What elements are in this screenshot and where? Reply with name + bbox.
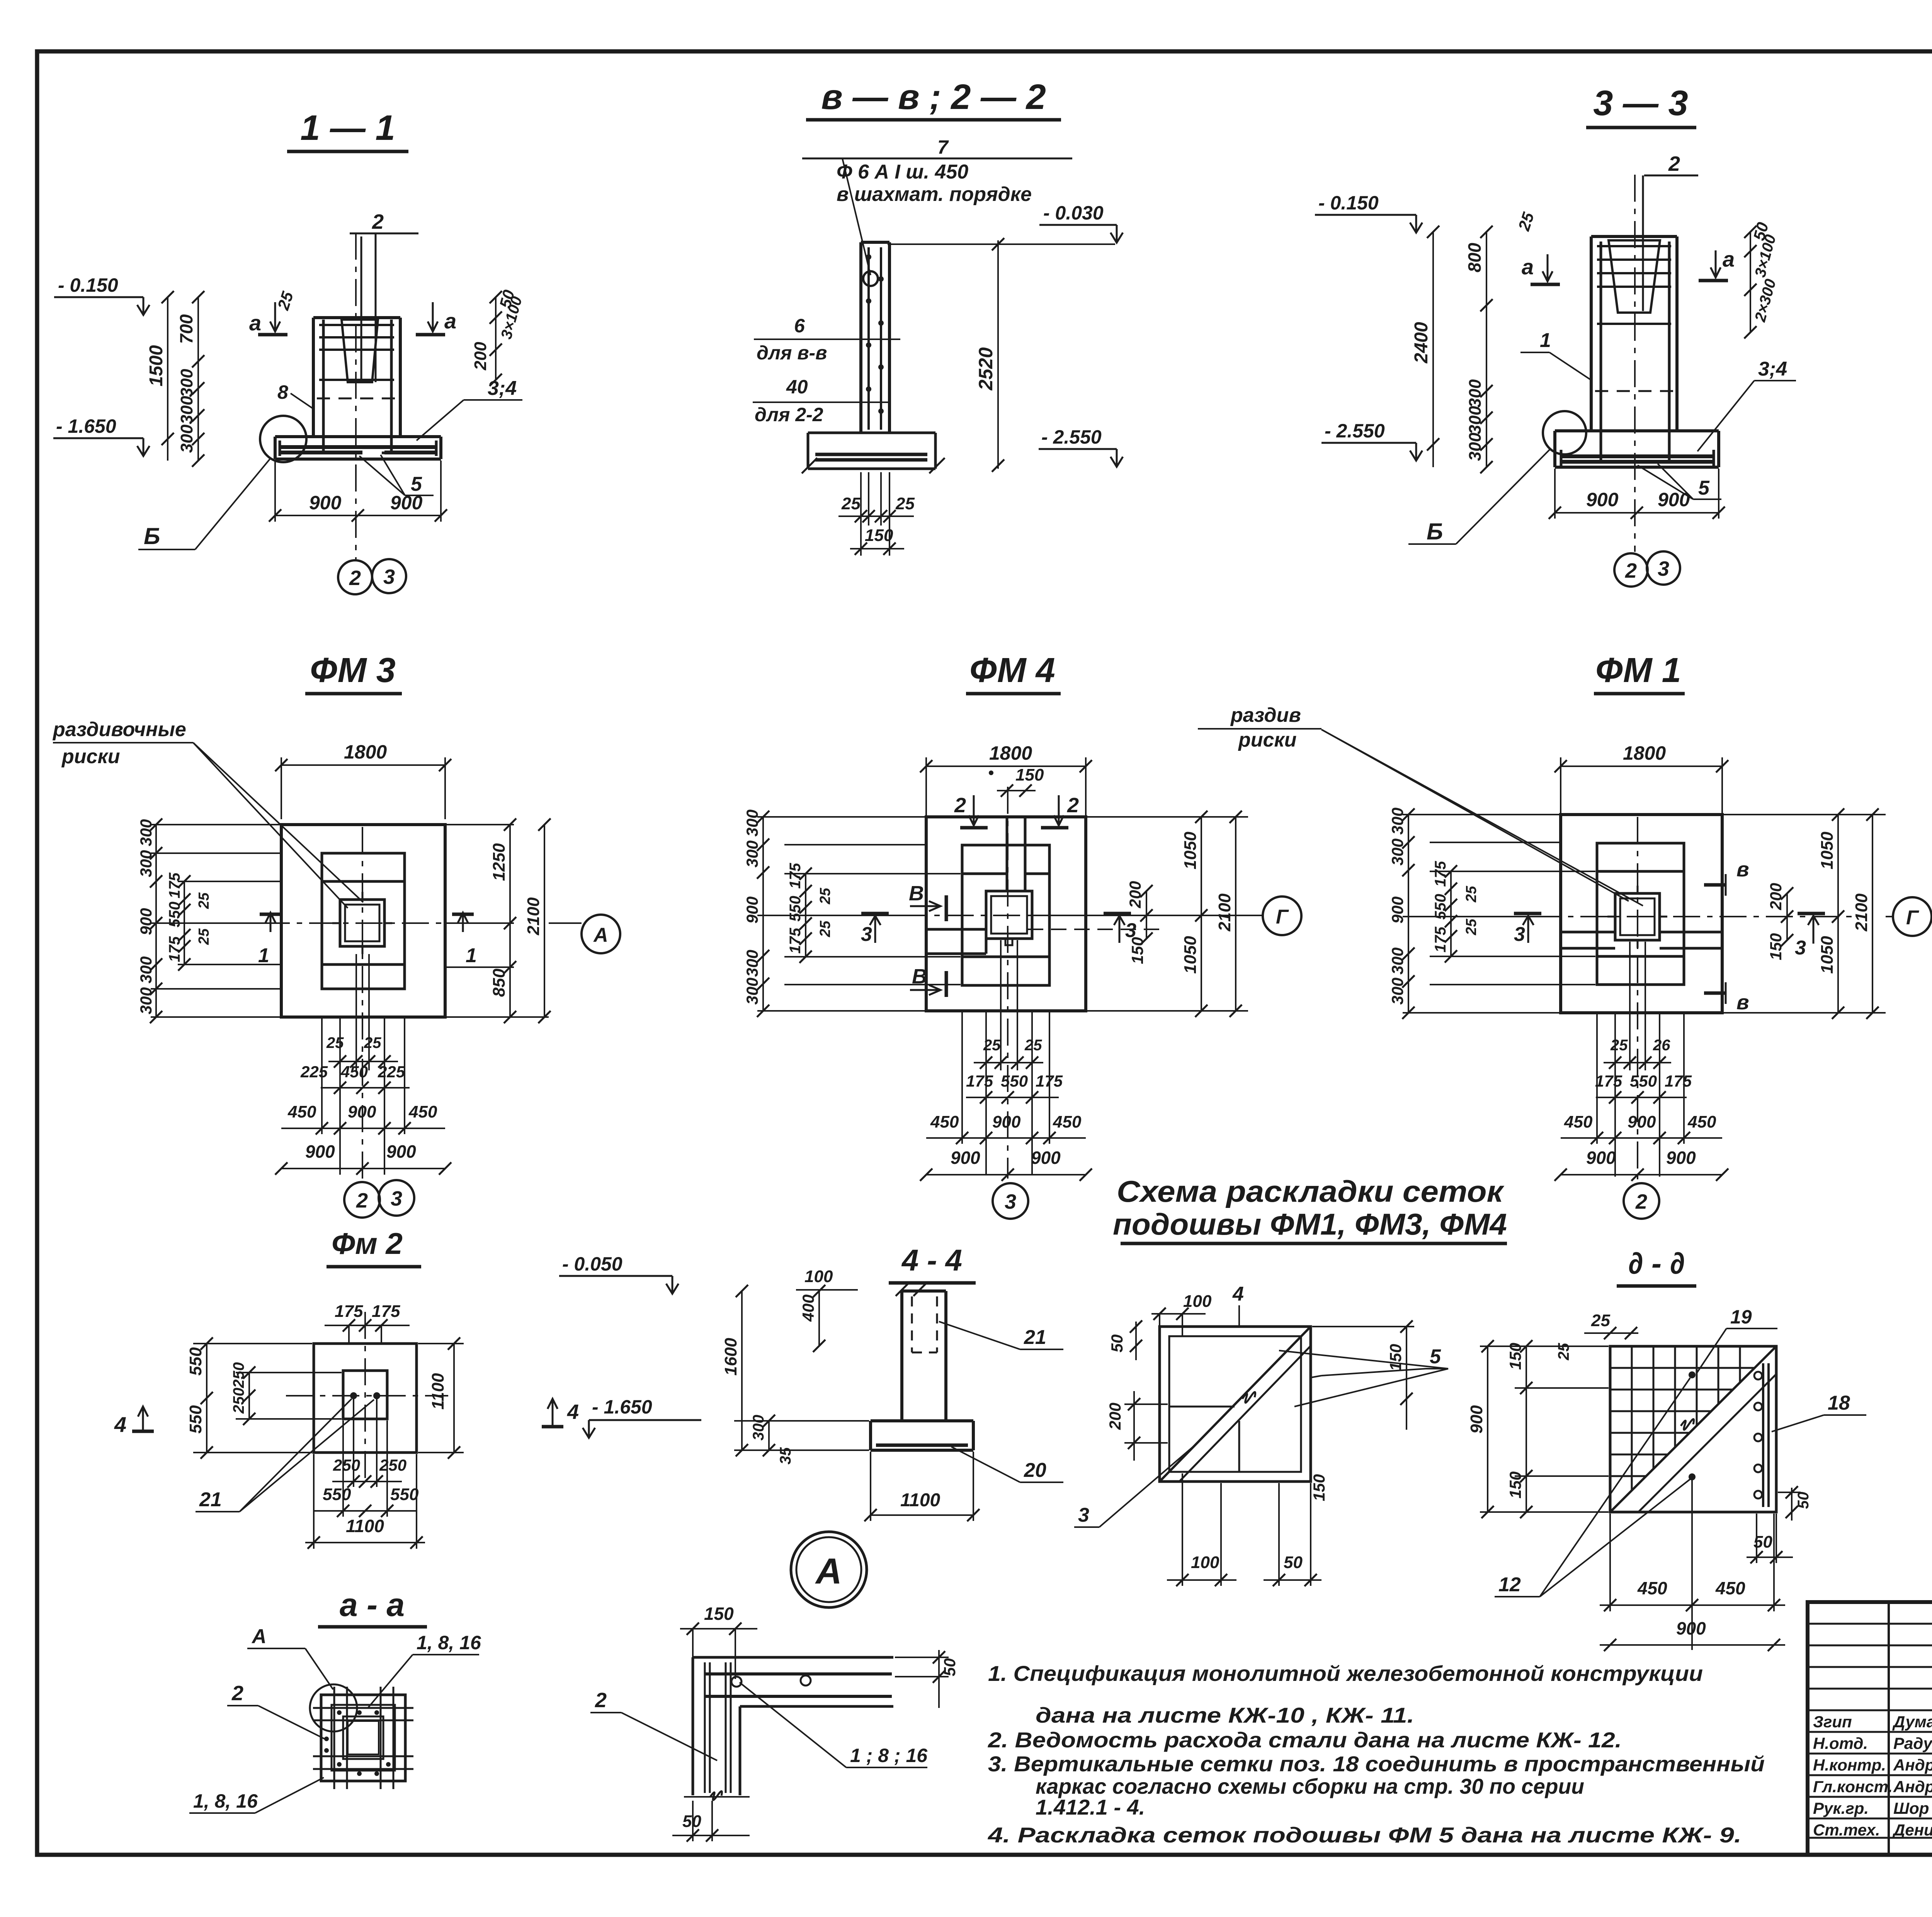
plan FM3 axis circle A [549, 922, 582, 924]
svg-text:900: 900 [1586, 489, 1619, 510]
section v-v footing [808, 432, 935, 434]
section a-a rebars [313, 1707, 413, 1709]
section 1-1 left dim chain outer 1500 [167, 297, 168, 461]
svg-text:2: 2 [349, 566, 361, 590]
plan FM4 axis circle G [1248, 915, 1264, 916]
scheme dim 150 right [1406, 1327, 1407, 1430]
plan FM3 left dim chains [151, 824, 280, 825]
plan FM3 axis circle 3 [379, 1180, 414, 1216]
plan FM3 right dim chains [447, 824, 514, 825]
section d-d bottom dims [1609, 1514, 1611, 1611]
svg-text:25: 25 [196, 892, 212, 909]
svg-text:100: 100 [804, 1267, 833, 1286]
svg-text:900: 900 [348, 1102, 376, 1121]
section v-v wall outline [859, 242, 862, 433]
svg-text:4 - 4: 4 - 4 [901, 1243, 962, 1277]
svg-text:1600: 1600 [721, 1338, 740, 1376]
detail A dim 50 right [938, 1650, 940, 1708]
plan FM4 pedestal [962, 845, 1049, 985]
svg-text:25: 25 [1555, 1343, 1572, 1361]
svg-text:- 2.550: - 2.550 [1325, 420, 1385, 442]
svg-text:900: 900 [1628, 1112, 1656, 1131]
svg-text:2400: 2400 [1411, 322, 1432, 364]
svg-text:300: 300 [750, 1415, 767, 1441]
svg-text:2: 2 [372, 210, 384, 233]
section 3-3 axis circle 2 [1614, 553, 1648, 587]
svg-text:25: 25 [983, 1037, 1001, 1054]
section 4-4 bottom dim 1100 [870, 1452, 871, 1521]
svg-text:1800: 1800 [344, 741, 387, 763]
svg-text:4. Раскладка сеток подошвы Ф: 4. Раскладка сеток подошвы ФМ 5 дана на … [988, 1823, 1742, 1847]
svg-text:18: 18 [1828, 1392, 1850, 1414]
svg-text:450: 450 [930, 1112, 959, 1131]
svg-text:- 1.650: - 1.650 [56, 415, 116, 437]
svg-text:4: 4 [114, 1412, 126, 1437]
section 3-3 anchor pocket [1609, 240, 1660, 313]
svg-text:450: 450 [340, 1063, 368, 1081]
scheme mesh square [1160, 1327, 1311, 1482]
svg-text:риски: риски [61, 745, 120, 768]
plan FM3 outer square [281, 825, 445, 1017]
section d-d dots [1689, 1371, 1696, 1378]
svg-text:3: 3 [1514, 923, 1525, 946]
svg-text:2. Ведомость расхода стали да: 2. Ведомость расхода стали дана на листе… [988, 1728, 1622, 1752]
svg-text:для в-в: для в-в [757, 342, 827, 364]
plan FM4 axis circle 3 [993, 1183, 1028, 1219]
svg-text:800: 800 [1464, 243, 1485, 272]
svg-text:900: 900 [992, 1112, 1021, 1131]
svg-text:Ст.тех.: Ст.тех. [1813, 1821, 1880, 1839]
section d-d grid [1631, 1346, 1633, 1490]
section 1-1 mark a right [432, 302, 434, 332]
section 1-1 centerline [355, 233, 357, 559]
svg-text:25: 25 [1610, 1037, 1628, 1054]
svg-text:300: 300 [1466, 432, 1485, 461]
section v-v wall rebars [867, 247, 870, 430]
svg-text:риски: риски [1238, 729, 1297, 751]
svg-text:550: 550 [1001, 1072, 1028, 1090]
svg-text:150: 150 [704, 1604, 734, 1624]
svg-text:Г: Г [1906, 907, 1919, 929]
plan FM3 section mark 1 right [462, 913, 464, 932]
svg-text:50: 50 [682, 1812, 701, 1831]
svg-text:раздивочные: раздивочные [52, 718, 186, 741]
svg-text:300: 300 [1466, 379, 1485, 408]
svg-text:Андриевская: Андриевская [1893, 1778, 1932, 1796]
plan FM1 right dims [1724, 814, 1886, 815]
svg-text:2: 2 [1067, 794, 1079, 817]
plan FM2 right dim 1100 [418, 1343, 464, 1344]
detail A wall rebars [704, 1662, 706, 1793]
plan FM1 riski leader [1321, 730, 1629, 901]
svg-text:250: 250 [230, 1388, 247, 1414]
svg-text:19: 19 [1730, 1306, 1752, 1328]
svg-text:раздив: раздив [1230, 704, 1301, 726]
svg-text:225: 225 [300, 1063, 328, 1081]
plan FM1 column stub [1615, 893, 1660, 940]
svg-text:1: 1 [466, 944, 477, 967]
svg-text:25: 25 [895, 494, 915, 513]
svg-text:3: 3 [383, 565, 395, 589]
svg-text:Н.отд.: Н.отд. [1813, 1734, 1868, 1752]
svg-text:Радуха: Радуха [1893, 1734, 1932, 1752]
plan FM2 bottom dims [353, 1399, 354, 1487]
svg-text:25: 25 [817, 920, 833, 937]
svg-text:450: 450 [1053, 1112, 1082, 1131]
svg-text:175: 175 [166, 936, 183, 962]
section 1-1 column outline [312, 318, 315, 437]
svg-text:а: а [1522, 255, 1534, 279]
svg-text:1050: 1050 [1818, 832, 1837, 869]
section v-v bottom dims [860, 472, 862, 556]
svg-text:200: 200 [1767, 883, 1785, 910]
plan FM1 pedestal [1597, 843, 1684, 985]
svg-text:250: 250 [230, 1362, 247, 1388]
svg-text:300: 300 [743, 840, 761, 867]
svg-text:2: 2 [595, 1689, 607, 1712]
section 1-1 anchor pocket [342, 320, 378, 382]
svg-text:20: 20 [1024, 1459, 1046, 1482]
plan FM4 column stub [986, 891, 1032, 939]
section 3-3 top rebars [1597, 245, 1671, 247]
svg-text:50: 50 [1108, 1334, 1126, 1352]
plan FM1 section mark 3 left [1514, 912, 1541, 915]
section 1-1 right dim chain [495, 297, 497, 380]
section a-a circle A small [310, 1684, 357, 1732]
svg-text:850: 850 [490, 968, 509, 997]
scheme dim 200 left [1133, 1391, 1135, 1461]
section d-d right bottom dims 50 [1791, 1488, 1793, 1521]
svg-text:550: 550 [1630, 1072, 1657, 1090]
svg-text:300: 300 [743, 950, 761, 977]
plan FM1 section mark 3 right [1798, 912, 1825, 915]
svg-text:Ф 6 А I ш. 450: Ф 6 А I ш. 450 [837, 161, 968, 183]
plan FM1 outer square [1561, 815, 1722, 1013]
plan FM2 anchor dots [350, 1392, 357, 1399]
svg-text:25: 25 [817, 888, 833, 905]
title block grid [1808, 1602, 1932, 1855]
svg-text:1: 1 [1540, 329, 1551, 352]
svg-text:175: 175 [966, 1072, 993, 1090]
svg-text:8: 8 [277, 381, 288, 403]
svg-text:200: 200 [1106, 1403, 1124, 1430]
section 1-1 footing outline [275, 435, 441, 438]
svg-text:900: 900 [305, 1141, 335, 1162]
svg-text:40: 40 [786, 376, 808, 398]
svg-text:2: 2 [356, 1189, 368, 1212]
svg-text:900: 900 [1031, 1148, 1061, 1168]
plan FM1 bottom dims [1614, 1014, 1616, 1177]
svg-text:Г: Г [1276, 906, 1289, 928]
plan FM1 top dim 1800 [1560, 757, 1561, 813]
section d-d left dims [1480, 1345, 1609, 1347]
svg-text:150: 150 [1386, 1344, 1405, 1371]
svg-text:Андриевская: Андриевская [1893, 1756, 1932, 1774]
svg-text:450: 450 [1687, 1112, 1716, 1131]
svg-text:300: 300 [1388, 839, 1406, 866]
svg-text:1500: 1500 [146, 345, 167, 386]
svg-text:300: 300 [1466, 406, 1485, 434]
svg-text:3: 3 [1795, 937, 1806, 959]
svg-text:2: 2 [1625, 559, 1637, 582]
scheme wavy break [1242, 1392, 1255, 1403]
svg-text:900: 900 [1676, 1618, 1706, 1638]
svg-text:2100: 2100 [1852, 893, 1871, 932]
svg-text:550: 550 [186, 1405, 205, 1434]
svg-text:175: 175 [372, 1302, 400, 1321]
section d-d right bar [1762, 1363, 1764, 1507]
svg-text:250: 250 [379, 1456, 406, 1474]
svg-text:450: 450 [1715, 1578, 1745, 1598]
svg-text:1, 8, 16: 1, 8, 16 [193, 1790, 258, 1812]
section 3-3 axis circle 3 [1647, 551, 1680, 585]
svg-text:1100: 1100 [900, 1490, 940, 1510]
section v-v dim 2520 [997, 240, 999, 469]
svg-text:7: 7 [937, 136, 949, 158]
svg-text:550: 550 [186, 1347, 205, 1376]
section v-v hook circle [863, 271, 878, 286]
section 3-3 right dim chain [1750, 232, 1751, 332]
plan FM1 middle band [1561, 931, 1615, 934]
svg-text:225: 225 [378, 1063, 405, 1081]
svg-text:- 0.030: - 0.030 [1043, 202, 1104, 224]
svg-text:175: 175 [787, 863, 804, 889]
svg-text:Згип: Згип [1813, 1713, 1852, 1731]
svg-text:А: А [593, 924, 608, 946]
svg-text:550: 550 [390, 1485, 419, 1504]
svg-text:- 0.150: - 0.150 [1318, 192, 1379, 214]
svg-text:Гл.конст.: Гл.конст. [1813, 1778, 1893, 1796]
svg-text:3: 3 [1078, 1504, 1089, 1526]
svg-text:дана на листе КЖ-10 , КЖ- 11: дана на листе КЖ-10 , КЖ- 11. [1036, 1703, 1414, 1727]
plan FM2 outer square [314, 1344, 417, 1453]
svg-text:3. Вертикальные сетки поз. 1: 3. Вертикальные сетки поз. 18 соединить … [988, 1752, 1765, 1776]
svg-text:А: А [251, 1625, 267, 1648]
plan FM1 left dim chains [1403, 814, 1559, 815]
svg-text:550: 550 [166, 902, 183, 927]
svg-text:25: 25 [1463, 886, 1480, 903]
section 3-3 bottom mesh [1561, 454, 1714, 458]
plan FM4 top dim 1800 and 150 [925, 757, 927, 815]
svg-text:Шор: Шор [1893, 1799, 1929, 1817]
section 4-4 footing [871, 1419, 973, 1422]
svg-text:400: 400 [799, 1294, 817, 1322]
svg-text:1050: 1050 [1181, 936, 1200, 974]
svg-text:300: 300 [137, 987, 155, 1014]
svg-text:300: 300 [137, 850, 155, 877]
plan FM1 axis circle G [1886, 916, 1893, 917]
svg-text:а: а [1723, 247, 1735, 271]
plan FM4 section mark 3 right [1104, 912, 1131, 915]
svg-text:4: 4 [567, 1400, 579, 1424]
section 3-3 mark a left [1547, 254, 1549, 281]
svg-text:ФМ 1: ФМ 1 [1595, 651, 1681, 690]
svg-text:700: 700 [176, 314, 196, 344]
plan FM4 formwork plank strip [1006, 817, 1009, 891]
svg-text:3: 3 [1658, 557, 1669, 580]
svg-text:150: 150 [1506, 1471, 1524, 1499]
svg-text:900: 900 [743, 896, 761, 924]
section 3-3 bottom dim 900 900 [1554, 469, 1556, 519]
svg-text:1.412.1 - 4.: 1.412.1 - 4. [1036, 1795, 1145, 1819]
svg-text:Фм 2: Фм 2 [332, 1226, 403, 1260]
plan FM2 inner square [343, 1371, 387, 1419]
svg-text:100: 100 [1191, 1553, 1219, 1572]
svg-text:900: 900 [390, 492, 423, 514]
section 1-1 top rebars [319, 324, 394, 326]
svg-text:2520: 2520 [975, 347, 997, 391]
section d-d mesh square [1610, 1346, 1776, 1512]
svg-text:175: 175 [1595, 1072, 1622, 1090]
svg-text:ФМ 3: ФМ 3 [310, 651, 395, 690]
section 3-3 left dim outer 2400 [1432, 232, 1434, 467]
svg-text:25: 25 [326, 1034, 344, 1051]
section 1-1 left dim chain inner [197, 297, 199, 461]
svg-text:а - а: а - а [340, 1587, 405, 1623]
svg-text:25: 25 [1463, 919, 1480, 936]
svg-text:300: 300 [1388, 808, 1406, 835]
svg-text:1050: 1050 [1818, 936, 1837, 974]
section 1-1 detail circle B [260, 416, 306, 462]
section 4-4 column [900, 1291, 903, 1421]
plan FM3 column stub [340, 900, 384, 946]
section 3-3 dashed lines [1595, 390, 1674, 392]
svg-text:300: 300 [177, 369, 196, 397]
svg-text:900: 900 [1658, 489, 1690, 510]
svg-text:900: 900 [137, 908, 155, 935]
plan FM4 section mark 3 left [861, 912, 889, 915]
svg-text:26: 26 [1653, 1037, 1670, 1054]
section 4-4 anchor dashed [911, 1296, 913, 1352]
detail A slab and wall [693, 1656, 893, 1659]
svg-text:150: 150 [1015, 765, 1044, 784]
svg-text:1: 1 [258, 944, 269, 967]
svg-text:900: 900 [1666, 1148, 1696, 1168]
svg-text:175: 175 [787, 928, 804, 954]
section 1-1 axis circle 2 [338, 560, 372, 594]
plan FM3 pedestal [322, 853, 405, 989]
svg-text:Думан: Думан [1892, 1713, 1932, 1731]
plan FM4 left dim chains [757, 816, 925, 818]
svg-text:3: 3 [1005, 1190, 1016, 1213]
svg-text:150: 150 [1128, 937, 1146, 964]
plan FM1 axis circle 2 [1624, 1183, 1659, 1219]
svg-text:2: 2 [954, 794, 966, 817]
plan FM3 centerlines [216, 922, 448, 924]
svg-text:а: а [444, 309, 456, 333]
svg-text:ФМ 4: ФМ 4 [969, 651, 1055, 690]
svg-text:900: 900 [309, 492, 342, 514]
svg-text:1800: 1800 [1623, 742, 1666, 764]
svg-text:300: 300 [743, 810, 761, 837]
svg-text:Б: Б [1427, 519, 1443, 544]
section 1-1 bottom mesh [280, 445, 436, 449]
svg-text:21: 21 [1024, 1326, 1046, 1349]
plan FM3 axis circle 2 [344, 1182, 380, 1218]
detail A break mark [710, 1791, 722, 1800]
svg-text:а: а [249, 311, 261, 335]
detail A circle [791, 1532, 867, 1607]
section d-d wavy break [1681, 1419, 1694, 1430]
svg-text:150: 150 [865, 526, 893, 545]
svg-text:550: 550 [787, 896, 804, 922]
plan FM2 left dims [193, 1343, 312, 1344]
svg-text:300: 300 [177, 424, 196, 453]
section 3-3 vertical rebars [1600, 242, 1602, 462]
svg-text:300: 300 [177, 396, 196, 424]
svg-text:25: 25 [841, 494, 861, 513]
plan FM4 left notch band [926, 928, 986, 931]
svg-text:25: 25 [196, 928, 212, 945]
svg-text:150: 150 [1506, 1343, 1524, 1370]
svg-text:50: 50 [1284, 1553, 1303, 1572]
plan FM4 centerlines [900, 915, 1155, 916]
svg-text:2: 2 [231, 1682, 243, 1705]
svg-text:25: 25 [1591, 1311, 1610, 1330]
section 1-1 anchor sleeve lines [361, 236, 362, 380]
plan FM3 section mark 1 left [270, 913, 272, 932]
svg-text:1, 8, 16: 1, 8, 16 [417, 1632, 481, 1653]
scheme dim 50 left [1135, 1322, 1137, 1360]
svg-text:∂ - ∂: ∂ - ∂ [1628, 1246, 1685, 1280]
svg-text:300: 300 [137, 819, 155, 846]
svg-text:3 — 3: 3 — 3 [1593, 83, 1688, 123]
detail A mesh [705, 1672, 892, 1675]
svg-text:450: 450 [408, 1102, 437, 1121]
svg-text:в: в [1736, 991, 1749, 1014]
svg-text:2100: 2100 [1215, 893, 1234, 932]
svg-text:450: 450 [1564, 1112, 1593, 1131]
svg-text:- 2.550: - 2.550 [1041, 426, 1102, 448]
section 4-4 mark T4 -1.650 [552, 1399, 554, 1425]
svg-text:Схема раскладки сеток: Схема раскладки сеток [1117, 1174, 1505, 1208]
svg-text:в — в ; 2 — 2: в — в ; 2 — 2 [821, 77, 1046, 117]
svg-text:1800: 1800 [989, 742, 1032, 764]
svg-text:1 ; 8 ; 16: 1 ; 8 ; 16 [850, 1745, 928, 1766]
section 3-3 column outline [1590, 236, 1593, 431]
svg-text:300: 300 [1388, 978, 1406, 1005]
svg-text:1050: 1050 [1181, 832, 1200, 869]
svg-text:300: 300 [1388, 947, 1406, 975]
svg-text:3: 3 [861, 923, 872, 946]
svg-text:300: 300 [743, 978, 761, 1005]
plan FM4 bottom dims [985, 1012, 987, 1175]
section 1-1 mark a left [274, 302, 276, 332]
svg-text:для 2-2: для 2-2 [755, 404, 823, 425]
svg-text:12: 12 [1498, 1573, 1521, 1596]
svg-text:450: 450 [287, 1102, 316, 1121]
section 3-3 mark a right [1715, 250, 1717, 277]
svg-text:- 1.650: - 1.650 [592, 1396, 652, 1418]
section 1-1 bottom dim 900 900 [274, 461, 276, 522]
section d-d diagonal [1610, 1346, 1776, 1512]
svg-text:5: 5 [1430, 1345, 1441, 1368]
svg-text:2: 2 [1668, 152, 1680, 175]
plan FM4 outer square [926, 817, 1086, 1011]
section 3-3 anchor sleeve line [1642, 175, 1644, 311]
svg-text:900: 900 [1388, 896, 1406, 924]
plan FM3 bottom dim chains [339, 1019, 341, 1175]
svg-text:подошвы ФМ1, ФМ3, ФМ4: подошвы ФМ1, ФМ3, ФМ4 [1113, 1207, 1507, 1241]
svg-text:300: 300 [137, 956, 155, 983]
svg-text:2: 2 [1635, 1190, 1647, 1213]
svg-text:450: 450 [1637, 1578, 1667, 1598]
svg-text:в: в [1736, 858, 1749, 881]
plan FM1 centerlines [1534, 916, 1855, 917]
svg-text:В: В [909, 882, 924, 905]
svg-text:в шахмат. порядке: в шахмат. порядке [837, 183, 1032, 206]
scheme cross lines [1169, 1406, 1235, 1408]
